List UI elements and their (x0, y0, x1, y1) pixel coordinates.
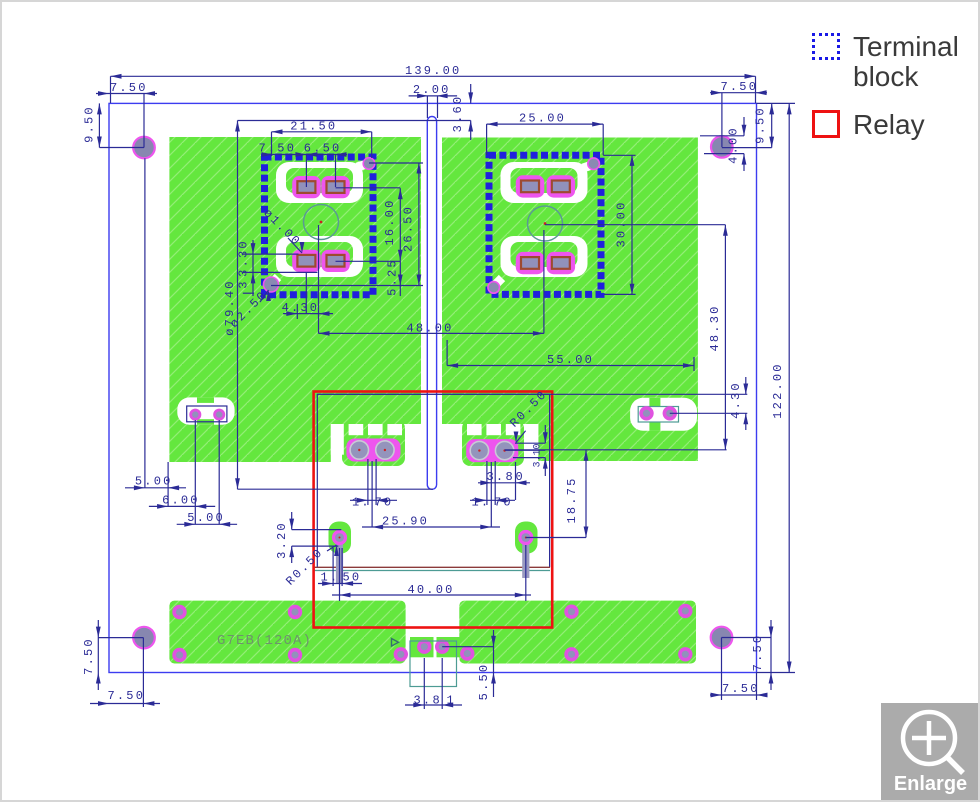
terminal block dotted outline right (489, 155, 601, 294)
svg-text:8: 8 (506, 470, 515, 484)
dim 1.70 left (350, 499, 397, 501)
dim 3.20 (291, 512, 293, 530)
dim 3.80 (478, 482, 530, 484)
bottom center pad 1 (417, 640, 431, 654)
dim 4.30 left (283, 313, 333, 315)
magnifier icon (903, 712, 955, 764)
svg-text:50: 50 (343, 571, 362, 585)
comb notch left (331, 424, 344, 455)
svg-text:4.30: 4.30 (729, 381, 743, 419)
terminal pad right 1 (516, 175, 545, 197)
middle-right cutout oval (630, 398, 697, 431)
svg-text:1.: 1. (352, 496, 371, 510)
terminal pad left 3 (292, 250, 321, 272)
svg-text:70: 70 (494, 496, 513, 510)
dim 16.00 (399, 188, 401, 261)
relay pad pedestal left (342, 420, 405, 466)
comb dash (506, 424, 521, 435)
svg-text:18.75: 18.75 (565, 476, 579, 523)
dim 48.00 (319, 332, 544, 334)
dim 7.50 bottom-left vertical (97, 620, 99, 690)
svg-text:3.: 3. (487, 470, 506, 484)
svg-text:5.50: 5.50 (477, 663, 491, 701)
bar pad 295,612 (288, 605, 302, 619)
svg-text:1.: 1. (321, 571, 340, 585)
middle-left pad 1 (189, 409, 201, 421)
fiducial triangle (392, 639, 399, 647)
terminal cutout ring left-bottom (276, 236, 363, 277)
bottom center teal rect (410, 641, 457, 687)
svg-text:3.10: 3.10 (533, 443, 544, 467)
relay terminal pad right (466, 439, 518, 462)
bar pad 685.3,610.9 (678, 604, 692, 618)
dim 7.50 bottom-right horizontal (710, 694, 767, 696)
middle-left pad 2 (213, 409, 225, 421)
svg-text:122.00: 122.00 (771, 362, 785, 418)
coil pad pedestal left (329, 522, 352, 554)
board outline (109, 103, 757, 672)
dim 1.50 (318, 583, 362, 585)
middle-left cluster rect (187, 406, 227, 422)
terminal pad left 2 (321, 176, 350, 198)
dim 25.00 (487, 123, 604, 125)
comb dash (349, 424, 364, 435)
dim 26.50 (418, 163, 420, 286)
coil pad pedestal right (515, 522, 538, 554)
svg-text:25.00: 25.00 (519, 112, 566, 126)
dim 122.00 (788, 103, 790, 672)
legend relay swatch (812, 110, 840, 138)
dim 9.50 right (771, 103, 773, 147)
block hole left-top (357, 164, 367, 167)
terminal pad right 3 (516, 252, 545, 274)
svg-text:1: 1 (447, 694, 456, 708)
terminal pad left 4 (321, 250, 350, 272)
dim 5.25 (399, 261, 401, 296)
comb dash (467, 424, 482, 435)
svg-text:2.00: 2.00 (413, 83, 451, 97)
slot outline (427, 117, 436, 490)
dim 3.30 (252, 240, 254, 296)
svg-text:7.50: 7.50 (108, 689, 146, 703)
bar pad 400.8,654.3 (394, 647, 408, 661)
bar pad 179.5,655 (172, 648, 186, 662)
legend text (853, 32, 959, 92)
dim 55.00 (447, 365, 694, 367)
bar pad 571.5,611.7 (564, 605, 578, 619)
bottom pad pedestal 1 (410, 637, 434, 657)
relay body maroon line (314, 566, 550, 568)
legend terminal block swatch (812, 33, 840, 60)
svg-text:7.50: 7.50 (722, 682, 760, 696)
relay area comb cut left (331, 424, 421, 463)
block hole right-top (583, 165, 592, 168)
coil pad right (518, 530, 533, 545)
bar pad 685.3,654.3 (678, 647, 692, 661)
svg-text:G7EB(120A): G7EB(120A) (217, 633, 312, 649)
bar pad 295,655 (288, 648, 302, 662)
block hole right-bottom (495, 278, 502, 285)
mounting hole bottom-right (711, 627, 733, 649)
middle-right pad 1 (639, 406, 653, 420)
comb notch right (525, 424, 538, 455)
dim 3.81 (405, 704, 462, 706)
terminal block dotted outline left (265, 157, 374, 295)
coil pad right lead (522, 540, 529, 578)
bottom copper bar right (459, 601, 696, 664)
svg-text:3.20: 3.20 (275, 521, 289, 559)
svg-text:5.25: 5.25 (385, 258, 399, 296)
terminal pad right 2 (547, 175, 576, 197)
svg-text:70: 70 (375, 496, 394, 510)
middle-left cutout oval (177, 397, 234, 424)
comb dash (448, 424, 463, 435)
long extension line terminal row (505, 449, 727, 451)
middle-right pad 2 (663, 406, 677, 420)
bottom pad pedestal 2 (437, 637, 461, 657)
relay pad pedestal right (462, 420, 524, 466)
svg-text:9.50: 9.50 (83, 105, 97, 143)
dim 7.50 6.50 chain (262, 154, 347, 156)
svg-text:25.90: 25.90 (382, 515, 429, 529)
terminal cutout ring right-bottom (501, 236, 588, 277)
comb dash (407, 424, 422, 435)
mounting hole top-left (133, 137, 155, 159)
copper pour left block (169, 137, 421, 462)
svg-text:7.50: 7.50 (110, 81, 148, 95)
relay red outline (314, 392, 553, 628)
relay body outline (317, 394, 549, 567)
dim 7.50 top-right (710, 92, 767, 94)
svg-text:6.50: 6.50 (304, 141, 342, 155)
dim 30.00 (631, 155, 633, 295)
svg-text:3.60: 3.60 (451, 95, 465, 133)
svg-text:5.00: 5.00 (135, 474, 173, 488)
bar pad 179.5,612 (172, 605, 186, 619)
dim 9.50 left (98, 103, 100, 147)
relay terminal pad left (346, 439, 400, 462)
dim 40.00 (332, 594, 531, 596)
mounting hole bottom-left (133, 627, 155, 649)
coil pad left (332, 530, 347, 545)
dim 3.60 (470, 84, 472, 103)
terminal cutout ring right-top (501, 162, 588, 203)
svg-text:9.50: 9.50 (754, 106, 768, 144)
dim 4.30 right (745, 377, 747, 395)
relay area comb cut right (442, 424, 538, 463)
mounting hole top-right (711, 136, 733, 158)
drill circle left (304, 205, 339, 240)
dim 5.00 pads (177, 523, 237, 525)
svg-text:5.00: 5.00 (187, 511, 225, 525)
svg-text:7.50: 7.50 (259, 141, 297, 155)
svg-text:1.: 1. (472, 496, 491, 510)
svg-text:3.: 3. (414, 694, 433, 708)
svg-text:4.30: 4.30 (282, 301, 320, 315)
coil pad left lead (336, 540, 343, 583)
enlarge button (881, 703, 980, 802)
bottom copper bar left (169, 601, 405, 664)
svg-text:7.50: 7.50 (721, 80, 759, 94)
dim 4.00 (743, 117, 745, 136)
dim 21.50 (272, 131, 372, 133)
dim dia79.40 (237, 121, 239, 490)
dim 25.90 (362, 526, 500, 528)
bar pad 467.3,653.5 (460, 646, 474, 660)
dim 3.10 (544, 425, 546, 443)
drill circle right (528, 206, 563, 241)
copper pour right block (442, 138, 698, 462)
dim 7.50 bottom-left horizontal (90, 703, 160, 705)
svg-text:30.00: 30.00 (614, 200, 628, 247)
terminal pad right 4 (547, 252, 576, 274)
svg-text:8: 8 (433, 694, 442, 708)
svg-text:26.50: 26.50 (401, 205, 415, 252)
comb dash (387, 424, 402, 435)
legend relay text (853, 109, 925, 141)
svg-text:6.00: 6.00 (162, 493, 200, 507)
comb dash (486, 424, 501, 435)
dim 5.00 left edge (125, 487, 186, 489)
comb dash (368, 424, 383, 435)
dim 18.75 (585, 450, 587, 538)
dim 2.00 slot (409, 95, 458, 97)
bottom center pad 2 (435, 640, 449, 654)
terminal cutout ring left-top (276, 162, 363, 203)
svg-text:21.50: 21.50 (290, 120, 337, 134)
svg-text:16.00: 16.00 (383, 198, 397, 245)
svg-text:55.00: 55.00 (547, 353, 594, 367)
svg-text:48.00: 48.00 (407, 322, 454, 336)
svg-text:7.50: 7.50 (82, 637, 96, 675)
svg-text:3: 3 (237, 279, 251, 288)
relay body teal line (314, 570, 550, 572)
dim 5.50 (493, 630, 495, 697)
terminal pad left 1 (292, 176, 321, 198)
svg-text:7.50: 7.50 (751, 634, 765, 672)
svg-text:139.00: 139.00 (405, 64, 461, 78)
svg-text:3.30: 3.30 (237, 239, 251, 277)
dim 6.00 (149, 505, 215, 507)
block hole left-bottom (272, 277, 278, 283)
svg-text:0: 0 (516, 470, 525, 484)
bar pad 571.5,654.3 (564, 647, 578, 661)
svg-text:40.00: 40.00 (408, 583, 455, 597)
svg-text:48.30: 48.30 (708, 304, 722, 351)
dim 7.50 top-left (96, 93, 157, 95)
svg-text:4.00: 4.00 (727, 126, 741, 164)
dim 48.30 (724, 225, 726, 450)
dim 139.00 (111, 75, 756, 77)
middle-right cluster rect (638, 407, 678, 423)
dim 7.50 bottom-right vertical (770, 620, 772, 690)
dim 1.70 right (470, 499, 515, 501)
